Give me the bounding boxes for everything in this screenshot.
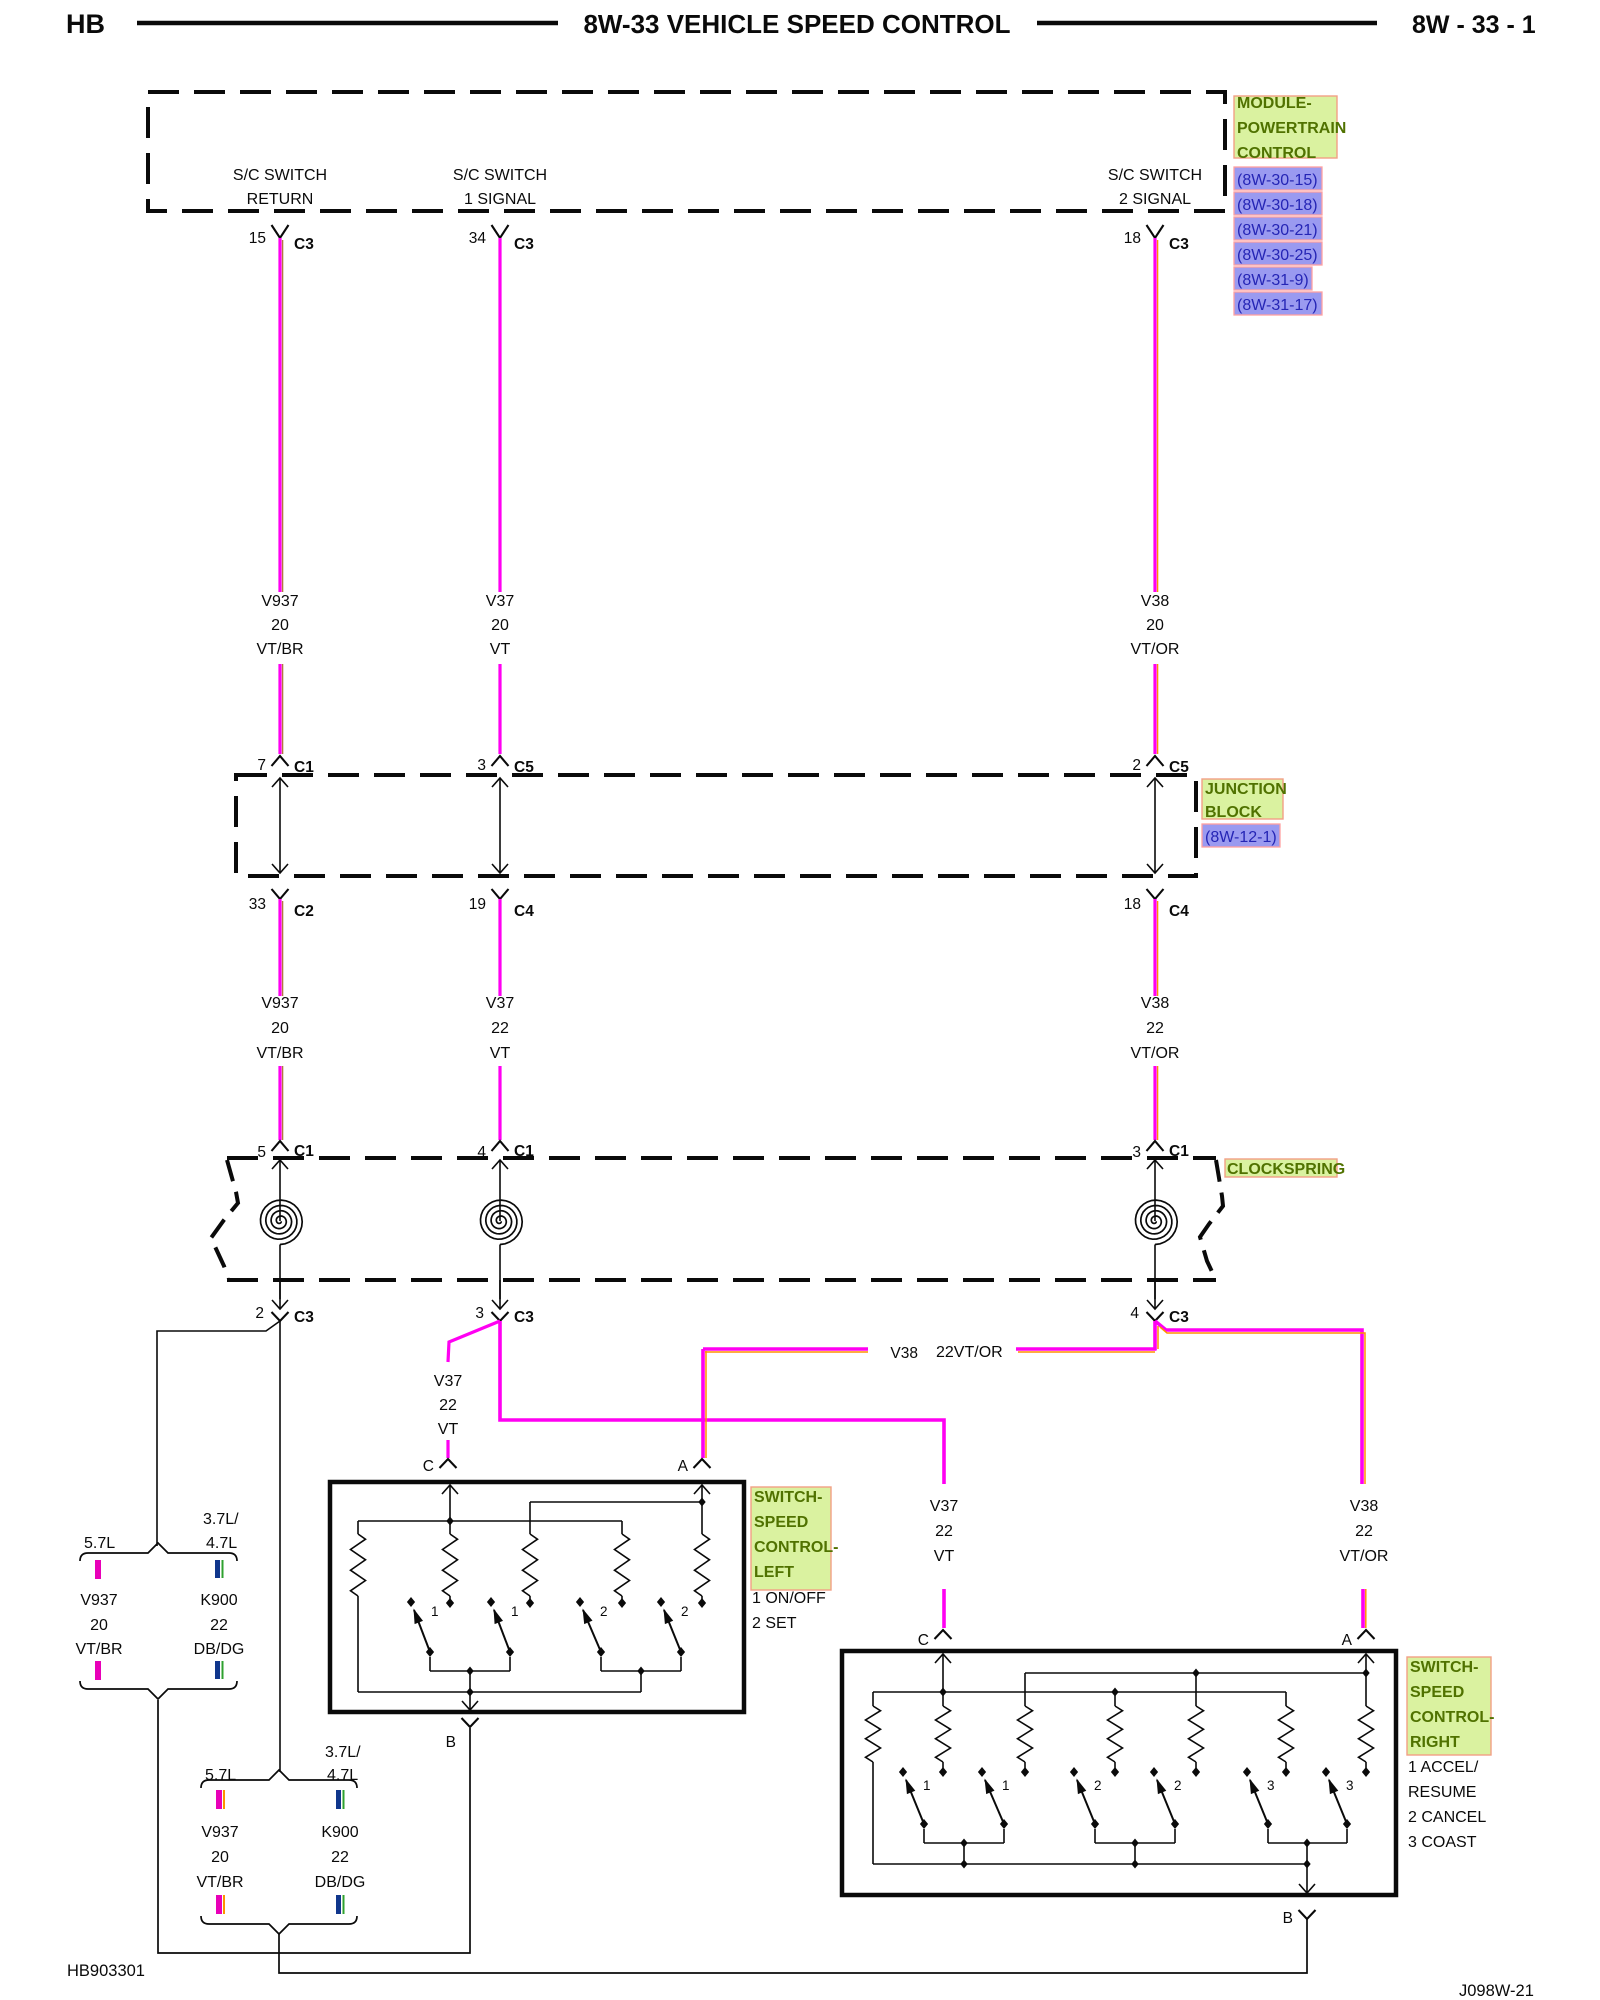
reference link (8W-30-18) <box>1234 192 1322 215</box>
svg-text:VT/BR: VT/BR <box>75 1641 122 1658</box>
svg-text:3.7L/: 3.7L/ <box>325 1744 361 1761</box>
svg-text:DB/DG: DB/DG <box>315 1874 366 1891</box>
switch arm contact 1 right switch <box>899 1767 907 1777</box>
switch arm contact 1 left switch <box>407 1597 415 1607</box>
left switch bus from pin C <box>358 1520 622 1522</box>
svg-text:22: 22 <box>1146 1020 1164 1037</box>
resistor R2 right switch <box>942 1692 944 1706</box>
svg-text:RESUME: RESUME <box>1408 1784 1476 1801</box>
reference link (8W-30-25) <box>1234 242 1322 265</box>
resistor R4 right switch <box>1114 1692 1116 1706</box>
wire V37 branch to left switch pin C <box>448 1321 500 1362</box>
wire V38 horizontal to left (segment) <box>1016 1347 1156 1351</box>
clockspring internal wire entering <box>499 1160 501 1221</box>
resistor R2 left switch <box>449 1521 451 1534</box>
svg-text:SWITCH-: SWITCH- <box>1410 1659 1478 1676</box>
svg-text:MODULE-: MODULE- <box>1237 95 1312 112</box>
clockspring dashed box left jagged edge <box>211 1160 238 1278</box>
svg-text:7: 7 <box>257 757 266 774</box>
svg-text:2: 2 <box>600 1604 608 1619</box>
connector C5 pin 3 at junction block top <box>492 756 509 766</box>
switch arm contact 2 left switch <box>657 1597 665 1607</box>
junction block dashed box <box>236 775 1196 876</box>
svg-text:J098W-21: J098W-21 <box>1459 1982 1534 2000</box>
clockspring internal wire entering <box>1154 1160 1156 1221</box>
svg-text:C2: C2 <box>294 903 314 920</box>
connector C4 pin 19 at junction block bottom <box>492 889 509 899</box>
splice engine variant brace bottom (left splice) <box>80 1681 237 1699</box>
connector C3 pin 3 at clockspring bottom <box>499 1280 501 1309</box>
connector pin B of left switch <box>462 1718 479 1727</box>
svg-text:A: A <box>678 1458 689 1475</box>
svg-text:2: 2 <box>1132 757 1141 774</box>
svg-text:VT/OR: VT/OR <box>1131 641 1180 658</box>
svg-text:4.7L: 4.7L <box>327 1767 358 1784</box>
switch arm contact 1 left switch <box>487 1597 495 1607</box>
clockspring internal wire exiting <box>499 1245 501 1300</box>
svg-text:2 CANCEL: 2 CANCEL <box>1408 1809 1486 1826</box>
svg-text:SWITCH-: SWITCH- <box>754 1489 822 1506</box>
resistor R4 left switch <box>621 1521 623 1534</box>
svg-text:22VT/OR: 22VT/OR <box>936 1344 1003 1361</box>
svg-text:5: 5 <box>257 1144 266 1161</box>
svg-text:20: 20 <box>90 1617 108 1634</box>
module U1 powertrain control module dashed box <box>148 92 1225 211</box>
svg-text:3: 3 <box>1132 1144 1141 1161</box>
svg-text:2: 2 <box>1094 1778 1102 1793</box>
wire vertical from junction block <box>498 899 501 996</box>
clockspring coil spiral <box>481 1200 523 1244</box>
svg-text:VT: VT <box>438 1421 459 1438</box>
clockspring coil spiral <box>1136 1200 1178 1244</box>
svg-text:20: 20 <box>1146 617 1164 634</box>
svg-text:BLOCK: BLOCK <box>1205 804 1262 821</box>
svg-text:C: C <box>918 1632 929 1649</box>
reference link (8W-31-17) <box>1234 292 1322 315</box>
left switch bottom bus <box>358 1691 641 1693</box>
connector C1 pin 3 at clockspring top <box>1147 1141 1164 1151</box>
svg-text:22: 22 <box>210 1617 228 1634</box>
right switch bus2 from pin C <box>873 1691 1286 1693</box>
svg-text:VT/BR: VT/BR <box>256 641 303 658</box>
svg-text:VT: VT <box>490 641 511 658</box>
svg-text:C3: C3 <box>1169 236 1189 253</box>
wire V37 main run to right switch pin C <box>500 1321 944 1484</box>
svg-text:22: 22 <box>491 1020 509 1037</box>
connector C1 pin 7 at junction block top <box>272 756 289 766</box>
splice engine variant brace top (left splice) <box>80 1543 237 1561</box>
wire color dash K900 <box>215 1661 220 1679</box>
module name label MODULE-POWERTRAIN CONTROL <box>1234 96 1337 158</box>
wire V9xx vertical from module <box>498 238 501 592</box>
svg-text:20: 20 <box>271 617 289 634</box>
svg-text:S/C SWITCH: S/C SWITCH <box>233 167 327 184</box>
resistor R5 right switch <box>1195 1673 1197 1706</box>
svg-text:A: A <box>1342 1632 1353 1649</box>
resistor R3 right switch <box>1024 1673 1026 1706</box>
switch arm contact 3 right switch <box>1322 1767 1330 1777</box>
wire vertical continues to junction block <box>1153 664 1156 754</box>
svg-text:15: 15 <box>249 230 266 247</box>
svg-text:4: 4 <box>1130 1305 1139 1322</box>
svg-text:19: 19 <box>469 896 486 913</box>
connector C2 pin 33 at junction block bottom <box>272 889 289 899</box>
clockspring dashed box right jagged edge <box>1200 1160 1223 1278</box>
wire vertical from junction block <box>1153 899 1156 996</box>
switch arm contact 3 right switch <box>1243 1767 1251 1777</box>
svg-text:2: 2 <box>255 1305 264 1322</box>
reference link (8W-12-1) <box>1202 824 1280 847</box>
svg-text:(8W-31-9): (8W-31-9) <box>1237 272 1309 289</box>
wire V37 stub to pin C <box>446 1440 449 1458</box>
connector C4 pin 18 at junction block bottom <box>1147 889 1164 899</box>
svg-text:V38: V38 <box>890 1345 918 1362</box>
clockspring dashed box bottom edge <box>227 1278 1216 1282</box>
svg-text:18: 18 <box>1124 230 1141 247</box>
wire color dash V937 <box>216 1790 222 1809</box>
connector pin A of left switch <box>694 1459 711 1468</box>
svg-text:V937: V937 <box>261 593 298 610</box>
left switch pin C internal lead <box>449 1485 451 1521</box>
svg-text:3: 3 <box>1346 1778 1354 1793</box>
wire V38 horizontal continues to x703 then down to left switch pin A <box>703 1347 868 1351</box>
svg-text:1 ACCEL/: 1 ACCEL/ <box>1408 1759 1479 1776</box>
svg-text:POWERTRAIN: POWERTRAIN <box>1237 120 1346 137</box>
svg-text:C3: C3 <box>294 236 314 253</box>
svg-text:C3: C3 <box>514 1309 534 1326</box>
svg-text:V937: V937 <box>261 995 298 1012</box>
svg-text:VT/BR: VT/BR <box>196 1874 243 1891</box>
wire S/C switch return down to splice (black) <box>279 1321 281 1772</box>
svg-text:RIGHT: RIGHT <box>1410 1734 1460 1751</box>
svg-text:SPEED: SPEED <box>754 1514 808 1531</box>
svg-text:3: 3 <box>477 757 486 774</box>
svg-text:(8W-30-18): (8W-30-18) <box>1237 197 1318 214</box>
resistor R3 left switch <box>529 1502 531 1534</box>
junction block internal pass-through wire with arrows <box>499 778 501 873</box>
wire color dash V937 <box>95 1661 101 1680</box>
svg-text:K900: K900 <box>321 1824 358 1841</box>
svg-text:33: 33 <box>249 896 266 913</box>
clockspring dashed box top edge <box>227 1156 1216 1160</box>
wire V37 stub to right switch pin C <box>942 1589 946 1628</box>
component label CLOCKSPRING <box>1225 1159 1337 1177</box>
wire V38 from pin 4 C3 down <box>1153 1321 1157 1351</box>
connector C3 pin 15 at module <box>272 225 289 238</box>
splice engine variant brace top (right splice) <box>201 1770 357 1788</box>
svg-text:HB: HB <box>66 9 105 39</box>
svg-text:22: 22 <box>331 1849 349 1866</box>
header rule right <box>1037 21 1377 26</box>
svg-text:CONTROL-: CONTROL- <box>754 1539 838 1556</box>
switch S2 speed control right box <box>842 1651 1396 1895</box>
connector pin C of left switch <box>440 1459 457 1468</box>
svg-text:22: 22 <box>439 1397 457 1414</box>
svg-text:S/C SWITCH: S/C SWITCH <box>1108 167 1202 184</box>
connector C3 pin 34 at module <box>492 225 509 238</box>
connector C3 pin 2 at clockspring bottom <box>279 1280 281 1309</box>
component label SWITCH-SPEED CONTROL-RIGHT <box>1407 1657 1491 1755</box>
right switch pin A internal lead <box>1365 1654 1367 1673</box>
reference link (8W-30-21) <box>1234 217 1322 240</box>
wire vertical continues to junction block <box>498 664 501 754</box>
right switch bus1 from pin A <box>1025 1672 1366 1674</box>
connector pin B of right switch <box>1299 1910 1316 1919</box>
svg-text:C3: C3 <box>294 1309 314 1326</box>
svg-text:4.7L: 4.7L <box>206 1535 237 1552</box>
right switch output lead pin B <box>1306 1864 1308 1893</box>
svg-text:(8W-31-17): (8W-31-17) <box>1237 297 1318 314</box>
svg-text:C4: C4 <box>1169 903 1189 920</box>
left switch arm pair links <box>429 1657 431 1671</box>
svg-text:3 COAST: 3 COAST <box>1408 1834 1477 1851</box>
right switch bottom bus <box>873 1863 1307 1865</box>
clockspring internal wire exiting <box>1154 1245 1156 1300</box>
right switch pin C internal lead <box>942 1654 944 1692</box>
reference link (8W-30-15) <box>1234 167 1322 190</box>
svg-text:3: 3 <box>1267 1778 1275 1793</box>
svg-text:V37: V37 <box>434 1373 463 1390</box>
svg-text:20: 20 <box>211 1849 229 1866</box>
svg-text:V937: V937 <box>80 1592 117 1609</box>
left switch bus from pin A <box>530 1501 702 1503</box>
svg-text:1: 1 <box>923 1778 931 1793</box>
svg-text:LEFT: LEFT <box>754 1564 794 1581</box>
resistor R1 left switch <box>357 1521 359 1534</box>
left switch output lead pin B <box>469 1692 471 1710</box>
wire V38 branch right from pin 4 C3 <box>1155 1321 1362 1484</box>
svg-text:(8W-30-25): (8W-30-25) <box>1237 247 1318 264</box>
svg-text:VT: VT <box>934 1548 955 1565</box>
resistor R5 left switch <box>701 1502 703 1534</box>
svg-text:8W-33 VEHICLE SPEED CONTROL: 8W-33 VEHICLE SPEED CONTROL <box>583 9 1010 39</box>
svg-text:C3: C3 <box>514 236 534 253</box>
connector C3 pin 4 at clockspring bottom <box>1154 1280 1156 1309</box>
svg-text:3.7L/: 3.7L/ <box>203 1511 239 1528</box>
resistor R7 right switch <box>1365 1673 1367 1706</box>
svg-text:B: B <box>446 1734 456 1751</box>
wire vertical continues to clockspring <box>278 1066 281 1140</box>
wire from left splice to left switch pin B <box>158 1700 470 1953</box>
wire from right splice to right switch pin B <box>279 1919 1307 1973</box>
svg-text:S/C SWITCH: S/C SWITCH <box>453 167 547 184</box>
svg-text:1: 1 <box>511 1604 519 1619</box>
component label JUNCTION BLOCK <box>1202 779 1283 819</box>
resistor R6 right switch <box>1285 1692 1287 1706</box>
reference link (8W-31-9) <box>1234 267 1312 290</box>
connector C5 pin 2 at junction block top <box>1147 756 1164 766</box>
wire vertical continues to clockspring <box>1153 1066 1156 1140</box>
connector C1 pin 4 at clockspring top <box>492 1141 509 1151</box>
svg-text:V37: V37 <box>486 593 515 610</box>
svg-text:CONTROL-: CONTROL- <box>1410 1709 1494 1726</box>
resistor R1 right switch <box>872 1692 874 1706</box>
svg-text:1: 1 <box>1002 1778 1010 1793</box>
clockspring internal wire entering <box>279 1160 281 1221</box>
wire color dash V937 <box>95 1560 101 1579</box>
svg-text:HB903301: HB903301 <box>67 1962 145 1980</box>
junction block internal pass-through wire with arrows <box>279 778 281 873</box>
wire V38 stub to right switch pin A <box>1361 1589 1365 1628</box>
svg-text:VT/BR: VT/BR <box>256 1045 303 1062</box>
right switch arm pair links <box>923 1829 925 1843</box>
svg-text:1 ON/OFF: 1 ON/OFF <box>752 1590 826 1607</box>
wire branch left from pin 2 C3 <box>157 1321 280 1546</box>
svg-text:K900: K900 <box>200 1592 237 1609</box>
svg-text:1 SIGNAL: 1 SIGNAL <box>464 191 536 208</box>
wire vertical from junction block <box>278 899 281 996</box>
switch arm contact 2 left switch <box>576 1597 584 1607</box>
connector pin A of right switch <box>1358 1630 1375 1639</box>
wire V9xx vertical from module <box>278 238 281 592</box>
svg-text:8W - 33 - 1: 8W - 33 - 1 <box>1412 11 1536 39</box>
svg-text:DB/DG: DB/DG <box>194 1641 245 1658</box>
svg-text:C3: C3 <box>1169 1309 1189 1326</box>
svg-text:5.7L: 5.7L <box>84 1535 115 1552</box>
wire color dash K900 <box>215 1560 220 1578</box>
svg-text:V38: V38 <box>1141 995 1170 1012</box>
svg-text:(8W-30-15): (8W-30-15) <box>1237 172 1318 189</box>
wire V9xx vertical from module <box>1153 238 1156 592</box>
connector C1 pin 5 at clockspring top <box>272 1141 289 1151</box>
svg-text:22: 22 <box>1355 1523 1373 1540</box>
connector C3 pin 18 at module <box>1147 225 1164 238</box>
svg-text:2: 2 <box>681 1604 689 1619</box>
switch arm contact 2 right switch <box>1070 1767 1078 1777</box>
svg-text:5.7L: 5.7L <box>205 1767 236 1784</box>
svg-text:3: 3 <box>475 1305 484 1322</box>
component label SWITCH-SPEED CONTROL-LEFT <box>751 1487 831 1590</box>
svg-text:18: 18 <box>1124 896 1141 913</box>
switch arm contact 2 right switch <box>1150 1767 1158 1777</box>
svg-text:2: 2 <box>1174 1778 1182 1793</box>
svg-text:2 SET: 2 SET <box>752 1615 797 1632</box>
svg-text:V937: V937 <box>201 1824 238 1841</box>
svg-text:(8W-12-1): (8W-12-1) <box>1205 829 1277 846</box>
clockspring internal wire exiting <box>279 1245 281 1300</box>
svg-text:1: 1 <box>431 1604 439 1619</box>
svg-text:20: 20 <box>491 617 509 634</box>
clockspring coil spiral <box>261 1200 303 1244</box>
wire color dash K900 <box>336 1790 341 1809</box>
svg-text:B: B <box>1283 1910 1293 1927</box>
svg-text:VT/OR: VT/OR <box>1131 1045 1180 1062</box>
svg-text:SPEED: SPEED <box>1410 1684 1464 1701</box>
left switch pin A internal lead <box>701 1485 703 1502</box>
switch arm contact 1 right switch <box>978 1767 986 1777</box>
switch S1 speed control left box <box>330 1482 744 1712</box>
splice engine variant brace bottom (right splice) <box>201 1916 357 1934</box>
header rule left <box>137 21 558 26</box>
svg-text:V38: V38 <box>1350 1498 1379 1515</box>
svg-text:C: C <box>423 1458 434 1475</box>
wire vertical continues to junction block <box>278 664 281 754</box>
wire color dash V937 <box>216 1895 222 1914</box>
svg-text:V37: V37 <box>486 995 515 1012</box>
svg-text:34: 34 <box>469 230 487 247</box>
svg-text:JUNCTION: JUNCTION <box>1205 781 1287 798</box>
svg-text:CONTROL: CONTROL <box>1237 145 1316 162</box>
svg-text:VT/OR: VT/OR <box>1340 1548 1389 1565</box>
svg-text:VT: VT <box>490 1045 511 1062</box>
svg-text:22: 22 <box>935 1523 953 1540</box>
svg-text:(8W-30-21): (8W-30-21) <box>1237 222 1318 239</box>
svg-text:V38: V38 <box>1141 593 1170 610</box>
svg-text:RETURN: RETURN <box>247 191 314 208</box>
wire color dash K900 <box>336 1895 341 1914</box>
svg-text:C4: C4 <box>514 903 534 920</box>
junction block internal pass-through wire with arrows <box>1154 778 1156 873</box>
svg-text:V37: V37 <box>930 1498 959 1515</box>
svg-text:CLOCKSPRING: CLOCKSPRING <box>1227 1161 1345 1178</box>
connector pin C of right switch <box>935 1630 952 1639</box>
wire vertical continues to clockspring <box>498 1066 501 1140</box>
svg-text:20: 20 <box>271 1020 289 1037</box>
svg-text:2 SIGNAL: 2 SIGNAL <box>1119 191 1191 208</box>
